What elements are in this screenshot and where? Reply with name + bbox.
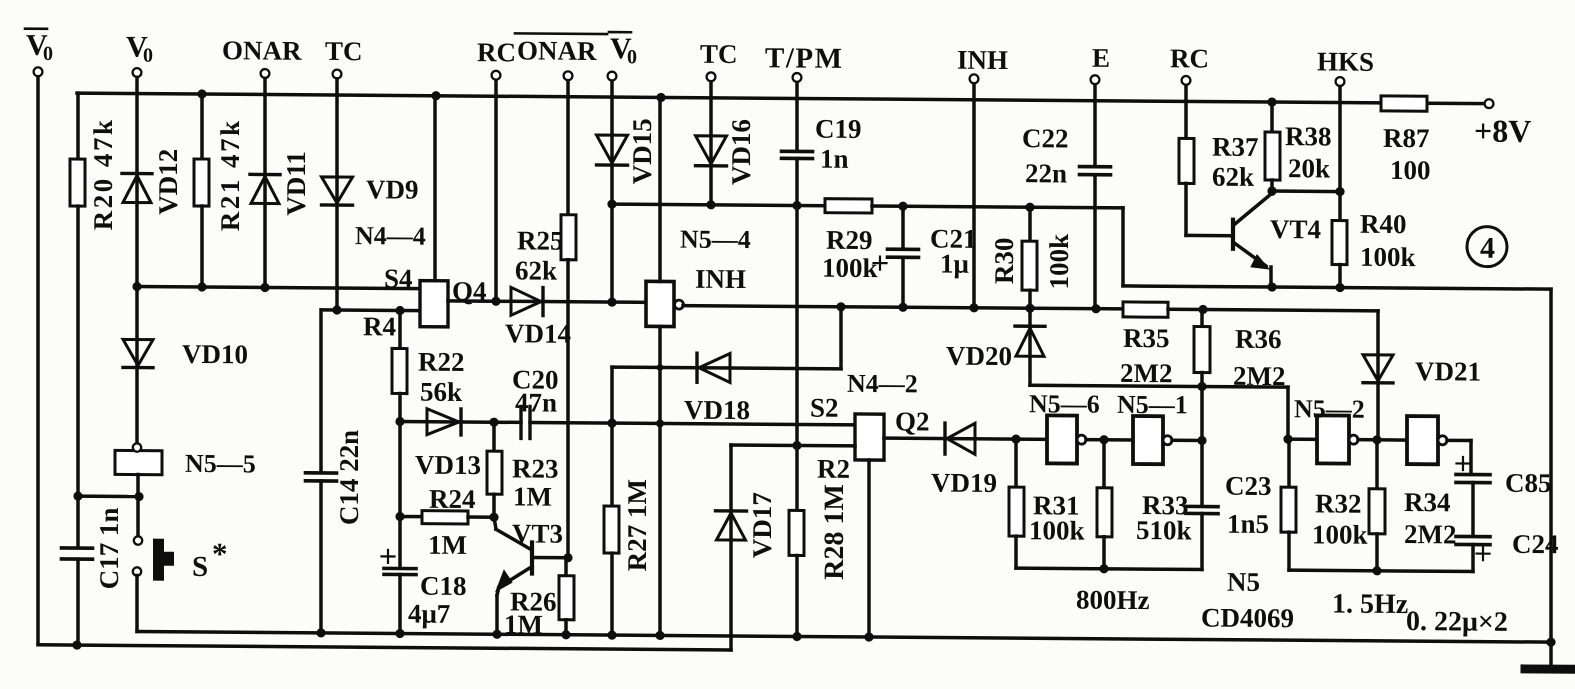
svg-text:R24: R24	[429, 484, 475, 514]
svg-text:N5—1: N5—1	[1117, 390, 1188, 420]
svg-text:VD9: VD9	[366, 174, 418, 204]
svg-text:INH: INH	[695, 264, 746, 294]
svg-text:20k: 20k	[1288, 153, 1330, 183]
svg-text:VD11: VD11	[281, 151, 311, 216]
svg-text:100: 100	[1390, 155, 1430, 185]
svg-text:VD20: VD20	[946, 341, 1012, 371]
svg-text:R22: R22	[418, 347, 464, 377]
svg-text:2M2: 2M2	[1120, 358, 1172, 388]
svg-text:R25: R25	[517, 225, 563, 255]
svg-text:TC: TC	[700, 39, 738, 69]
svg-text:C85: C85	[1505, 468, 1551, 498]
svg-text:VD17: VD17	[747, 492, 777, 558]
svg-text:100k: 100k	[1044, 234, 1074, 290]
svg-text:VD19: VD19	[931, 467, 997, 497]
svg-text:Q2: Q2	[895, 406, 930, 436]
svg-text:VT4: VT4	[1270, 214, 1321, 244]
svg-text:100k: 100k	[1312, 519, 1368, 549]
svg-text:1M: 1M	[504, 609, 543, 639]
svg-text:C18: C18	[420, 571, 466, 601]
svg-text:R21 47k: R21 47k	[215, 118, 245, 231]
svg-text:R32: R32	[1315, 488, 1361, 518]
svg-text:R20 47k: R20 47k	[88, 117, 118, 230]
svg-text:T/PM: T/PM	[765, 42, 843, 75]
svg-text:VD14: VD14	[505, 318, 571, 348]
svg-text:1. 5Hz: 1. 5Hz	[1332, 588, 1408, 620]
svg-text:R30: R30	[989, 237, 1019, 284]
svg-text:RC: RC	[1170, 43, 1209, 73]
svg-text:CD4069: CD4069	[1201, 603, 1294, 634]
svg-text:VD13: VD13	[415, 450, 481, 480]
svg-text:1n: 1n	[820, 144, 849, 174]
svg-text:*: *	[212, 536, 227, 571]
svg-text:R36: R36	[1235, 324, 1281, 354]
svg-text:R35: R35	[1123, 323, 1169, 353]
svg-text:VT3: VT3	[512, 518, 563, 548]
svg-text:100k: 100k	[822, 253, 878, 283]
svg-text:22n: 22n	[1025, 158, 1067, 188]
svg-text:HKS: HKS	[1317, 46, 1374, 76]
svg-text:0: 0	[43, 43, 53, 65]
svg-text:100k: 100k	[1029, 515, 1085, 545]
svg-text:VD12: VD12	[153, 149, 183, 215]
svg-text:S4: S4	[384, 263, 413, 293]
svg-text:100k: 100k	[1360, 242, 1416, 272]
svg-text:INH: INH	[957, 45, 1008, 75]
svg-text:+8V: +8V	[1474, 113, 1531, 149]
svg-text:1μ: 1μ	[940, 249, 969, 279]
svg-text:R28 1M: R28 1M	[819, 484, 850, 580]
svg-text:N5: N5	[1227, 567, 1260, 597]
svg-text:ONAR: ONAR	[222, 35, 302, 66]
svg-text:1M: 1M	[428, 530, 467, 560]
svg-text:N5—6: N5—6	[1029, 389, 1100, 419]
svg-text:R27 1M: R27 1M	[622, 479, 652, 571]
svg-text:R4: R4	[363, 311, 396, 341]
svg-text:C24: C24	[1512, 529, 1558, 559]
svg-text:VD10: VD10	[182, 339, 248, 369]
svg-text:ONAR: ONAR	[517, 35, 597, 66]
svg-text:56k: 56k	[420, 377, 462, 407]
svg-text:R2: R2	[817, 454, 850, 484]
svg-text:VD15: VD15	[627, 118, 657, 184]
svg-text:R38: R38	[1285, 121, 1331, 151]
svg-text:R34: R34	[1404, 487, 1450, 517]
svg-text:C19: C19	[815, 114, 861, 144]
svg-text:0: 0	[627, 46, 637, 68]
svg-text:1n5: 1n5	[1227, 509, 1269, 539]
svg-text:R40: R40	[1360, 209, 1406, 239]
svg-text:C17 1n: C17 1n	[94, 507, 124, 589]
svg-text:47n: 47n	[515, 387, 557, 417]
svg-text:TC: TC	[325, 36, 363, 66]
svg-text:N5—4: N5—4	[680, 225, 751, 255]
svg-text:E: E	[1092, 43, 1110, 73]
svg-text:2M2: 2M2	[1404, 519, 1456, 549]
svg-text:VD18: VD18	[684, 395, 750, 425]
svg-text:4μ7: 4μ7	[408, 599, 450, 629]
svg-text:2M2: 2M2	[1233, 361, 1285, 391]
svg-text:R37: R37	[1212, 132, 1258, 162]
svg-text:S: S	[192, 551, 208, 583]
svg-text:S2: S2	[810, 393, 839, 423]
svg-text:C23: C23	[1225, 471, 1271, 501]
svg-text:RC: RC	[477, 37, 516, 67]
svg-text:4: 4	[1480, 232, 1495, 265]
svg-text:800Hz: 800Hz	[1076, 585, 1150, 616]
svg-text:Q4: Q4	[452, 276, 487, 306]
svg-text:1M: 1M	[513, 481, 552, 511]
svg-text:62k: 62k	[1212, 162, 1254, 192]
svg-text:N5—5: N5—5	[185, 449, 256, 479]
svg-text:0: 0	[143, 45, 153, 67]
svg-text:C22: C22	[1022, 123, 1068, 153]
svg-text:R87: R87	[1383, 123, 1429, 153]
svg-text:510k: 510k	[1136, 515, 1192, 545]
svg-text:VD21: VD21	[1415, 356, 1481, 386]
svg-text:N4—2: N4—2	[847, 369, 918, 399]
svg-text:N4—4: N4—4	[355, 221, 426, 251]
svg-text:R29: R29	[826, 225, 872, 255]
svg-text:R23: R23	[512, 453, 558, 483]
svg-text:VD16: VD16	[726, 119, 756, 185]
svg-text:N5—2: N5—2	[1294, 394, 1365, 424]
svg-text:C14 22n: C14 22n	[334, 430, 364, 525]
svg-text:0. 22μ×2: 0. 22μ×2	[1406, 606, 1508, 638]
svg-text:62k: 62k	[515, 255, 557, 285]
